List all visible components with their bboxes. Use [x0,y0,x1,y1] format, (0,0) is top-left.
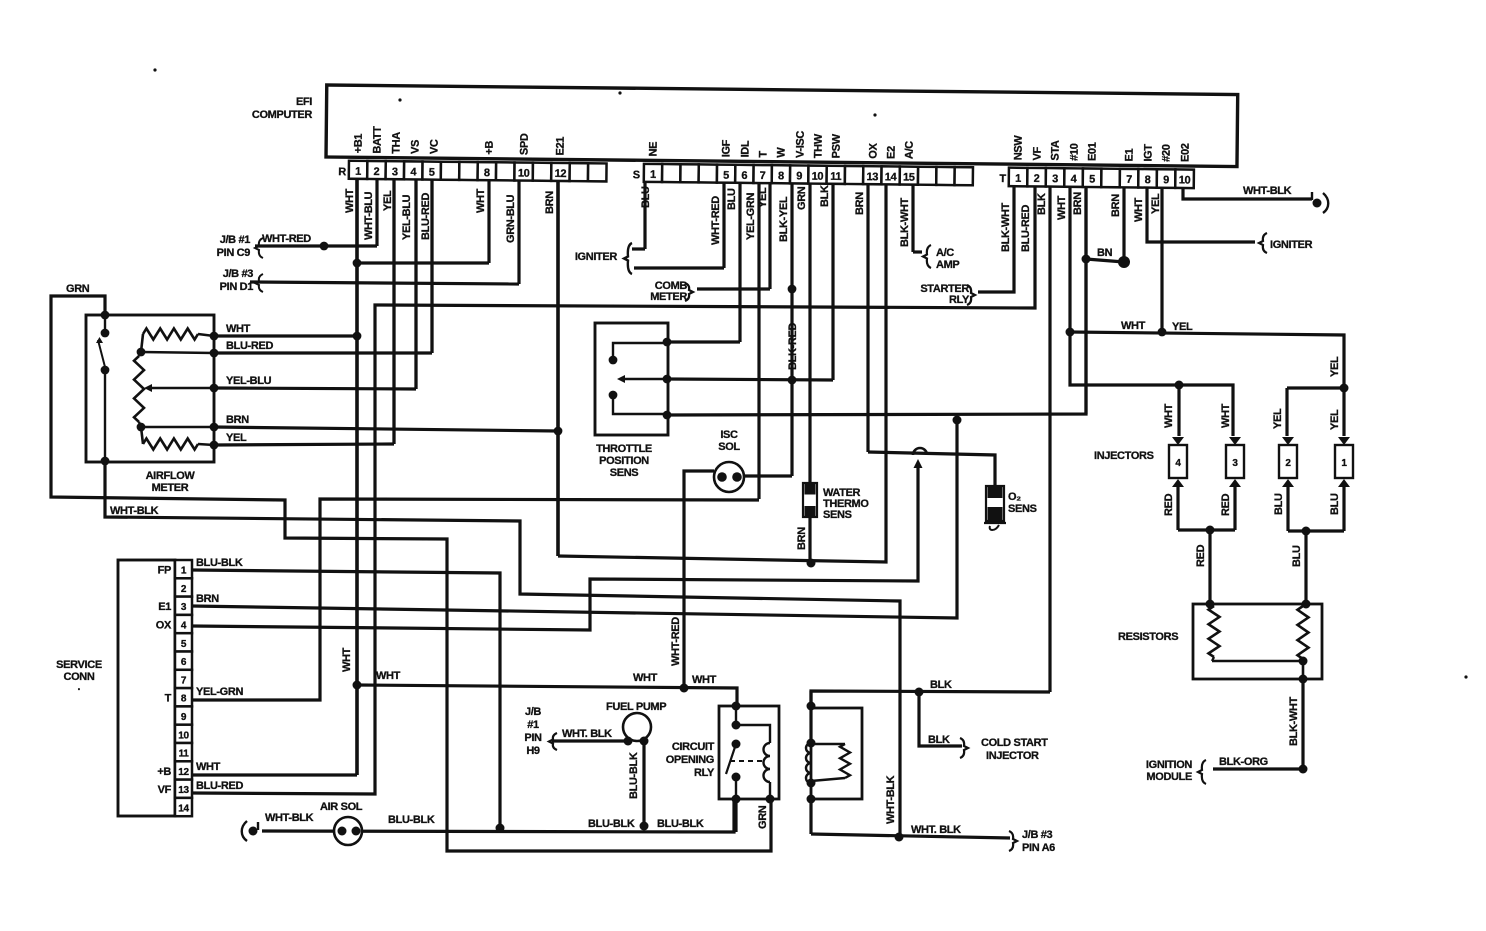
svg-text:O₂: O₂ [1008,491,1021,503]
resistors box [1193,604,1322,679]
switch contact top [101,329,110,338]
junction BLU feed [1302,527,1311,536]
wire pin S1 BLU drop [643,176,646,249]
svg-text:WHT: WHT [196,761,221,773]
svg-text:9: 9 [1163,174,1169,186]
wire BRN R12-E21 to S14 E2 via water thermo [558,176,886,562]
svg-text:BLU: BLU [726,188,738,210]
junction BRN/R12 [554,427,563,436]
svg-text:VF: VF [1032,146,1044,160]
injector 1 [1338,437,1350,445]
svg-text:BLU-BLK: BLU-BLK [628,752,640,799]
svg-text:YEL: YEL [1172,321,1193,333]
svg-text:#1: #1 [527,719,539,731]
pot top link [139,352,141,356]
wire injector 2 top [1285,388,1288,436]
svg-text:RLY: RLY [694,767,715,779]
svg-text:YEL: YEL [226,432,247,444]
svg-text:GRN: GRN [796,186,808,210]
svg-text:COMPUTER: COMPUTER [252,109,313,121]
wire water thermo BRN bottom [808,517,811,563]
svg-text:PIN C9: PIN C9 [217,247,251,259]
scan specks (noise from original) [153,68,156,71]
wire pin R3 YEL vertical [392,176,395,444]
pot bottom link [139,422,141,427]
relay coil bottom terminal [766,795,775,804]
wire BLK T3 to relay [811,691,1050,706]
junction RED feed [1206,526,1215,535]
wire BLK into relay resistor box [809,691,812,743]
wire pin T3 STA BLK long vertical [1048,176,1051,692]
junction R1/airflow WHT [353,332,362,341]
svg-text:12: 12 [555,168,567,180]
ISC contact left [717,472,727,482]
wire J/B#1 PIN C9 WHT-RED to pin R2 [255,244,377,247]
svg-text:J/B: J/B [525,706,541,718]
wire pin S5 WHT-RED drop [722,176,725,268]
svg-text:10: 10 [178,730,189,741]
wire BLU to resistors [1304,531,1307,604]
svg-text:EFI: EFI [296,96,312,108]
svg-text:3: 3 [392,166,398,178]
svg-text:RESISTORS: RESISTORS [1118,631,1178,643]
wire zigzag to WHT dot [198,334,214,336]
terminal BLU-RED [210,349,219,358]
junction resistor 2 top [1302,600,1311,609]
svg-text:THROTTLE: THROTTLE [596,443,652,455]
wire BLK-ORG to ignition module [1213,767,1303,770]
svg-text:WHT. BLK: WHT. BLK [562,728,612,740]
svg-text:8: 8 [1145,174,1151,186]
svg-text:OX: OX [156,620,172,632]
wire BLK to cold start injector [919,692,962,746]
ISC solenoid [714,462,744,492]
svg-text:BLU-RED: BLU-RED [196,780,243,792]
svg-text:2: 2 [374,166,380,178]
air solenoid [334,817,362,845]
svg-text:YEL: YEL [1329,409,1341,430]
wire zigzag to YEL dot [198,444,214,445]
svg-text:THW: THW [813,133,825,158]
svg-text:14: 14 [885,171,898,183]
wire ISC SOL right lead [744,474,792,477]
svg-text:WHT: WHT [1220,403,1232,428]
svg-text:YEL: YEL [757,187,769,208]
svg-text:BLK-WHT: BLK-WHT [1288,697,1300,746]
svg-text:7: 7 [760,170,766,182]
svg-text:5: 5 [181,639,187,650]
svg-text:METER: METER [650,291,687,303]
wire BRN T5-T7 jumper [1086,259,1124,262]
svg-text:T: T [165,693,172,705]
svg-text:J/B #3: J/B #3 [1022,829,1053,841]
wire IGNITER to pin T8 IGT [1147,176,1255,242]
injector 3 [1229,437,1241,445]
svg-text:3: 3 [181,602,187,613]
svg-text:5: 5 [723,170,729,182]
svg-text:BLU-BLK: BLU-BLK [388,814,435,826]
TPS terminal 3 [663,411,672,420]
wire resistor bottom jumper [1212,660,1303,663]
svg-text:INJECTORS: INJECTORS [1094,450,1154,462]
svg-text:1: 1 [1341,458,1347,469]
svg-text:1: 1 [650,169,656,181]
svg-text:WHT: WHT [1121,320,1146,332]
svg-text:FUEL PUMP: FUEL PUMP [606,701,666,713]
junction GRN on airflow box [101,311,110,320]
wire airflow YEL to R3 [214,444,394,445]
svg-text:INJECTOR: INJECTOR [986,750,1039,762]
junction BLK-ORG [1299,765,1308,774]
terminal YEL [210,441,219,450]
wire airflow YEL-BLU to R4 [214,388,416,389]
svg-text:BRN: BRN [544,191,556,214]
svg-text:BRN: BRN [226,414,249,426]
svg-text:E1: E1 [1124,148,1136,161]
svg-text:SPD: SPD [519,133,531,155]
junction airflow WHT-BLK pin [101,457,110,466]
svg-text:PIN D1: PIN D1 [220,281,254,293]
wire injector 1 top [1342,388,1345,436]
svg-text:BLK-YEL: BLK-YEL [778,196,790,242]
resistor element 1 [1209,606,1220,657]
junction resistors output [1299,657,1308,666]
svg-text:BLU: BLU [1291,545,1303,567]
wire switch top [104,315,106,333]
connector symbol air sol [249,827,258,836]
svg-text:GRN: GRN [757,805,769,829]
injector 4 [1172,437,1184,445]
svg-text:THA: THA [391,132,403,154]
svg-text:YEL: YEL [1272,408,1284,429]
svg-text:SENS: SENS [823,509,852,521]
connector dot on WHT-RED line [320,242,329,251]
svg-text:OPENING: OPENING [666,754,714,766]
svg-text:NE: NE [648,142,660,157]
wire pin T7 E1 BRN drop [1122,176,1125,262]
svg-text:BLK-WHT: BLK-WHT [899,198,911,247]
wire WHT-BLK airflow to J/B#3 A6 [105,461,900,838]
svg-text:SENS: SENS [1008,503,1037,515]
wire ground line TPS to pin T5 E01 [667,176,1086,415]
svg-text:+B1: +B1 [353,134,365,154]
bracket J/B#1 PIN H9 [549,733,557,750]
svg-text:WHT: WHT [1056,195,1068,220]
svg-text:6: 6 [181,657,187,668]
junction on resistors box edge [1299,675,1308,684]
svg-text:3: 3 [1052,173,1058,185]
svg-text:BLU: BLU [1273,493,1285,515]
relay contact to coil [736,725,770,743]
svg-text:BLU-RED: BLU-RED [226,340,273,352]
svg-text:8: 8 [181,694,187,705]
relay switch contact bottom [732,773,741,782]
wire pin T10 E02 WHT-BLK [1183,176,1312,199]
svg-text:J/B #1: J/B #1 [220,234,251,246]
wire to A/C AMP [913,250,922,253]
svg-text:E02: E02 [1180,143,1192,162]
wire GRN airflow switch to relay coil [51,296,771,851]
svg-text:T: T [758,151,770,158]
coil top junction [807,739,816,748]
wire pin R10 GRN-BLU drop [517,176,520,284]
relay bottom terminal left [732,795,741,804]
wire relay to WHT-BLK line [809,799,812,834]
svg-text:BLU-RED: BLU-RED [420,193,432,240]
svg-text:E2: E2 [886,146,898,159]
coil bottom junction [807,779,816,788]
svg-text:13: 13 [866,171,878,183]
connector dot BLK-YEL/BLK-RED [788,285,797,294]
wire pin T4 #10 WHT to injectors 3-4 bus [1070,176,1233,436]
wire YEL-GRN service T pin8 run [192,499,759,700]
junction T9 YEL [1158,328,1167,337]
svg-text:WHT-RED: WHT-RED [710,196,722,245]
svg-text:A/C: A/C [904,141,916,159]
svg-text:3: 3 [1232,458,1238,469]
wire pin R2 WHT-BLU drop [375,176,378,246]
svg-text:J/B #3: J/B #3 [223,268,254,280]
svg-text:IGNITER: IGNITER [1270,239,1313,251]
wire BLU-BLK air sol to relay [262,799,734,832]
svg-text:WHT. BLK: WHT. BLK [911,824,961,836]
TPS wiper wire [625,378,666,380]
svg-text:E1: E1 [158,601,171,613]
wire BLU-BLK service FP pin1 down to pump line [192,570,500,828]
wire injector 2 bottom [1286,487,1289,531]
svg-text:WHT: WHT [475,188,487,213]
svg-text:VC: VC [429,139,441,154]
svg-text:WHT: WHT [692,674,717,686]
wire WHT-RED ISC to WHT line [684,471,714,688]
svg-text:7: 7 [1126,174,1132,186]
fuel pump terminal right [640,737,649,746]
svg-text:BRN: BRN [1110,194,1122,217]
svg-text:SOL: SOL [718,441,740,453]
EFI computer box [326,85,1238,167]
svg-text:10: 10 [1179,174,1191,186]
junction fuel pump/BLU-BLK line [640,822,649,831]
wire RED to resistors [1208,530,1211,604]
svg-text:#10: #10 [1069,143,1081,161]
wire pin S11 PSW BLK vertical [831,176,834,380]
wire pin S6 IDL BLU vertical [738,176,741,342]
wire igniter lower link [634,266,724,269]
airflow meter box [86,315,214,462]
svg-text:BLU-RED: BLU-RED [1020,205,1032,252]
junction pot top [137,348,146,357]
svg-text:T: T [999,173,1006,185]
water thermo sensor body [803,483,817,517]
svg-text:BLU-BLK: BLU-BLK [657,818,704,830]
wire TPS wiper to pin S11 [667,379,833,380]
wire WHT-BLK J/B#1 H9 to fuel pump [552,739,628,742]
junction injector bus YEL [1340,384,1349,393]
wire OX service pin4 to O2 signal tap [192,468,918,630]
svg-text:6: 6 [741,170,747,182]
svg-text:R: R [338,166,346,178]
svg-text:BLU: BLU [640,186,652,208]
throttle position sensor box [595,323,668,435]
svg-text:MODULE: MODULE [1146,771,1192,783]
wire injector 4 top [1177,385,1180,436]
TPS contact 1 [609,356,618,365]
svg-text:WHT-BLK: WHT-BLK [885,775,897,824]
wire pin T5 E01 BRN vertical upper [1084,176,1087,259]
svg-text:YEL-GRN: YEL-GRN [196,686,243,698]
junction resistor 1 top [1206,600,1215,609]
TPS contact 2 [609,391,618,400]
svg-text:CONN: CONN [64,671,95,683]
junction T5/T7 BRN [1082,255,1091,264]
svg-text:AIR SOL: AIR SOL [320,801,363,813]
svg-text:IGNITER: IGNITER [575,251,618,263]
svg-text:V-ISC: V-ISC [795,131,807,159]
terminal WHT [210,332,219,341]
svg-text:1: 1 [181,566,187,577]
svg-text:COLD START: COLD START [981,737,1048,749]
svg-text:IGF: IGF [721,139,733,157]
wire injectors 1-2 bottom bus [1288,529,1344,532]
wire pin T9 #20 YEL vertical [1160,176,1163,332]
wire VF BLU-RED service pin13 to pin T2 [192,176,1035,794]
svg-text:14: 14 [178,804,189,815]
svg-text:GRN: GRN [66,283,90,295]
svg-text:CIRCUIT: CIRCUIT [672,741,715,753]
wire hop over OX tap [913,448,927,455]
svg-text:E01: E01 [1087,142,1099,161]
wire pin R5 BLU-RED vertical [430,176,433,353]
svg-text:BLK: BLK [819,185,831,207]
svg-text:BRN: BRN [196,593,219,605]
ISC contact right [732,472,742,482]
potentiometer airflow [134,356,144,422]
svg-text:YEL: YEL [1150,193,1162,214]
air sol contact right [352,827,361,836]
resistor airflow top zigzag [143,329,198,340]
svg-text:RED: RED [1195,544,1207,567]
wire airflow BRN to R12 [214,427,558,431]
resistor airflow bottom zigzag [143,439,198,450]
wire +B link to pin R8 [357,261,489,264]
svg-text:ISC: ISC [720,429,738,441]
junction on TPS wiper wire [788,376,797,385]
wire relay to BLU-BLK line [734,799,737,832]
svg-text:VS: VS [410,140,422,154]
wire pin S15 A/C BLK-WHT drop [911,176,914,252]
air sol contact left [338,827,347,836]
svg-text:WHT: WHT [341,647,353,672]
wire airflow WHT to R1 [214,334,357,337]
wire injector 1 bottom [1342,487,1345,531]
wire TPS IDL to pin S6 [667,340,740,343]
wire airflow BLU-RED to R5 [214,351,432,354]
service pin boxes [175,560,192,578]
svg-text:BLK-RED: BLK-RED [787,323,799,370]
O2 sensor pigtail [990,525,999,530]
resistor bottom link [811,778,845,781]
svg-text:1: 1 [1015,173,1021,185]
wire pin S7 YEL-GRN vertical [757,176,760,499]
svg-text:NSW: NSW [1013,135,1025,161]
svg-text:FP: FP [158,565,171,577]
svg-text:GRN-BLU: GRN-BLU [505,194,517,243]
svg-text:11: 11 [830,171,841,183]
svg-text:WHT-RED: WHT-RED [262,233,311,245]
wire pin S13 OX BRN vertical [866,176,869,452]
svg-text:WHT: WHT [1133,197,1145,222]
wire igniter upper link [632,247,645,250]
O2 sensor body [986,486,1004,521]
relay top terminal [732,702,741,711]
junction pot bottom [137,423,146,432]
arrowhead OX tap [914,459,923,468]
connector symbol WHT-BLK [1313,199,1322,208]
relay resistor box [811,708,862,799]
svg-text:S: S [633,169,640,181]
junction WHT/WHT-RED ISC feed [680,684,689,693]
connector blob T7 BRN [1118,256,1130,268]
wire pin R1 WHT long vertical [355,176,359,775]
service connector box [118,560,175,816]
svg-text:11: 11 [179,749,190,760]
wire S13 OX BRN to O2 sensor [868,452,995,486]
junction R1/WHT line [353,681,362,690]
wire injectors 1-2 top bus [1287,386,1344,389]
svg-text:8: 8 [778,170,784,182]
svg-text:BATT: BATT [372,126,384,154]
svg-text:WHT: WHT [633,672,658,684]
svg-text:WHT-BLK: WHT-BLK [1243,185,1292,197]
svg-text:OX: OX [868,142,880,158]
svg-text:2: 2 [1034,173,1040,185]
junction injector 4 feed [1175,381,1184,390]
svg-text:BLU-BLK: BLU-BLK [196,557,243,569]
svg-text:12: 12 [178,767,189,778]
svg-text:BLK-WHT: BLK-WHT [1000,203,1012,252]
svg-text:YEL-BLU: YEL-BLU [401,194,413,240]
wire COMB METER to pin S8 [697,287,770,290]
wire pin R12 BRN vertical [556,176,560,556]
svg-text:SERVICE: SERVICE [56,659,102,671]
svg-text:YEL: YEL [1329,356,1341,377]
TPS terminal 1 [663,338,672,347]
junction T4/WHT-YEL line [1066,328,1075,337]
wire pin S10 THW GRN vertical [808,176,811,483]
svg-text:YEL: YEL [382,190,394,211]
svg-text:POSITION: POSITION [599,455,649,467]
svg-text:1: 1 [355,166,361,178]
wire pin T5 E01 BRN vertical lower [1084,259,1087,414]
relay resistor element [840,744,850,778]
svg-text:WHT: WHT [376,670,401,682]
wire BLU-BLK fuel pump down [642,741,645,826]
terminal on box bottom [807,795,816,804]
injector 2 [1282,437,1294,445]
wire BLU-RED rail [141,352,214,353]
svg-text:WHT-BLK: WHT-BLK [110,505,159,517]
svg-text:YEL-GRN: YEL-GRN [745,193,757,240]
svg-text:BRN: BRN [1072,192,1084,215]
svg-text:4: 4 [181,621,187,632]
wire injector 4 bottom [1176,487,1179,530]
svg-text:9: 9 [181,712,187,723]
svg-text:VF: VF [158,784,172,796]
svg-text:10: 10 [518,168,530,180]
wire WHT-YEL T4/T9 to injector 1 [1070,332,1344,388]
TPS wire 1 [613,343,666,360]
svg-text:5: 5 [1089,173,1095,185]
